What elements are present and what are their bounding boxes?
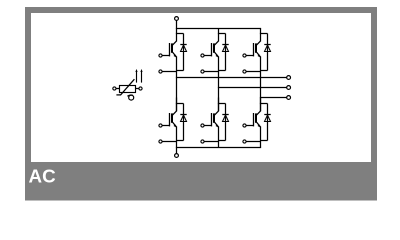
terminal: gate pin of Q3 — [201, 54, 204, 57]
wire: emitter lead of Q5 — [260, 57, 262, 71]
terminal: auxiliary emitter pin of Q2 — [159, 140, 162, 143]
terminal: auxiliary emitter pin of Q3 — [201, 70, 204, 73]
diode D2 (anti-parallel freewheeling, cathode up) — [180, 114, 186, 116]
wire: negative DC bus — [176, 147, 261, 149]
wire: phase leg 1 vertical (top emitter to bottom collector) — [176, 71, 178, 112]
wire: AC output U line — [176, 77, 287, 79]
wire: AC output W line — [260, 97, 287, 99]
wire: gate lead of Q6 — [246, 125, 253, 127]
wire: auxiliary emitter lead of Q2 — [162, 141, 176, 143]
diode D5 (anti-parallel freewheeling, cathode up) — [264, 44, 270, 46]
wire: gate lead of Q4 — [204, 125, 211, 127]
wire: jog from collector of Q4 to D4 cathode — [218, 103, 226, 105]
wire: jog from collector of Q5 to D5 cathode — [260, 33, 268, 35]
temperature arrows (two vertical strokes) — [136, 71, 138, 83]
wire: jog from collector of Q2 to D2 cathode — [176, 103, 184, 105]
wire: collector lead of Q1 — [176, 29, 178, 42]
terminal: gate pin of Q2 — [159, 124, 162, 127]
wire: D6 anode lead down to emitter of Q6 — [267, 122, 269, 141]
wire: D4 anode lead down to emitter of Q4 — [225, 122, 227, 141]
terminal: gate pin of Q6 — [243, 124, 246, 127]
wire: collector lead of Q2 — [176, 98, 178, 112]
wire: jog from collector of Q6 to D6 cathode — [260, 103, 268, 105]
wire: jog from collector of Q3 to D3 cathode — [218, 33, 226, 35]
transistor Q1 (IGBT) — [172, 41, 177, 46]
wire: auxiliary emitter lead of Q1 — [162, 71, 176, 73]
terminal: DC+ — [175, 17, 179, 21]
terminal: thermistor right pin — [139, 87, 142, 90]
wire: D3 anode lead down to emitter of Q3 — [225, 52, 227, 71]
wire: thermistor left lead — [116, 88, 120, 90]
transistor Q4 (IGBT) — [214, 111, 219, 116]
wire: D5 anode lead down to emitter of Q5 — [267, 52, 269, 71]
diode D3 (anti-parallel freewheeling, cathode up) — [222, 44, 228, 46]
terminal: DC- — [175, 154, 179, 158]
wire: gate lead of Q2 — [162, 125, 169, 127]
terminal: gate pin of Q4 — [201, 124, 204, 127]
wire: emitter lead of Q6 — [260, 127, 262, 148]
terminal: auxiliary emitter pin of Q6 — [243, 140, 246, 143]
wire: phase leg 3 vertical (top emitter to bottom collector) — [260, 71, 262, 112]
wire: emitter lead of Q3 — [218, 57, 220, 71]
wire: emitter lead of Q4 — [218, 127, 220, 148]
terminal: gate pin of Q1 — [159, 54, 162, 57]
wire: gate lead of Q3 — [204, 55, 211, 57]
AC banner bar — [25, 162, 377, 201]
wire: collector lead of Q5 — [260, 29, 262, 42]
diode D6 (anti-parallel freewheeling, cathode up) — [264, 114, 270, 116]
wire: phase leg 2 vertical (top emitter to bottom collector) — [218, 71, 220, 112]
terminal: auxiliary emitter pin of Q5 — [243, 70, 246, 73]
terminal: AC output U — [287, 76, 291, 80]
diode D4 (anti-parallel freewheeling, cathode up) — [222, 114, 228, 116]
wire: thermistor right lead — [136, 88, 139, 90]
wire: positive DC bus — [176, 28, 261, 30]
terminal: auxiliary emitter pin of Q4 — [201, 140, 204, 143]
thermistor R-NTC body — [120, 86, 136, 93]
thermistor diagonal foot — [116, 94, 121, 96]
transistor Q6 (IGBT) — [256, 111, 261, 116]
transistor Q5 (IGBT) — [256, 41, 261, 46]
wire: AC output V line — [218, 87, 287, 89]
terminal: thermistor left pin — [113, 87, 116, 90]
wire: collector lead of Q4 — [218, 98, 220, 112]
wire: auxiliary emitter lead of Q3 — [204, 71, 218, 73]
wire: D2 anode lead down to emitter of Q2 — [183, 122, 185, 141]
terminal: AC output V — [287, 86, 291, 90]
transistor Q3 (IGBT) — [214, 41, 219, 46]
thermistor variability diagonal stroke — [121, 79, 135, 95]
wire: jog from collector of Q1 to D1 cathode — [176, 33, 184, 35]
wire: auxiliary emitter lead of Q5 — [246, 71, 260, 73]
wire: negative bus to DC- terminal — [176, 148, 178, 154]
wire: gate lead of Q5 — [246, 55, 253, 57]
wire: emitter lead of Q2 — [176, 127, 178, 148]
wire: emitter lead of Q1 — [176, 57, 178, 71]
wire: collector lead of Q3 — [218, 29, 220, 42]
wire: DC+ terminal to positive bus — [176, 21, 178, 29]
transistor Q2 (IGBT) — [172, 111, 177, 116]
wire: collector lead of Q6 — [260, 98, 262, 112]
terminal: auxiliary emitter pin of Q1 — [159, 70, 162, 73]
wire: gate lead of Q1 — [162, 55, 169, 57]
wire: auxiliary emitter lead of Q4 — [204, 141, 218, 143]
wire: D1 anode lead down to emitter of Q1 — [183, 52, 185, 71]
terminal: gate pin of Q5 — [243, 54, 246, 57]
label: theta (temperature) symbol — [129, 95, 134, 100]
terminal: AC output W — [287, 96, 291, 100]
outer gray frame — [28, 10, 374, 198]
wire: auxiliary emitter lead of Q6 — [246, 141, 260, 143]
svg-text:AC: AC — [29, 166, 57, 187]
diode D1 (anti-parallel freewheeling, cathode up) — [180, 44, 186, 46]
